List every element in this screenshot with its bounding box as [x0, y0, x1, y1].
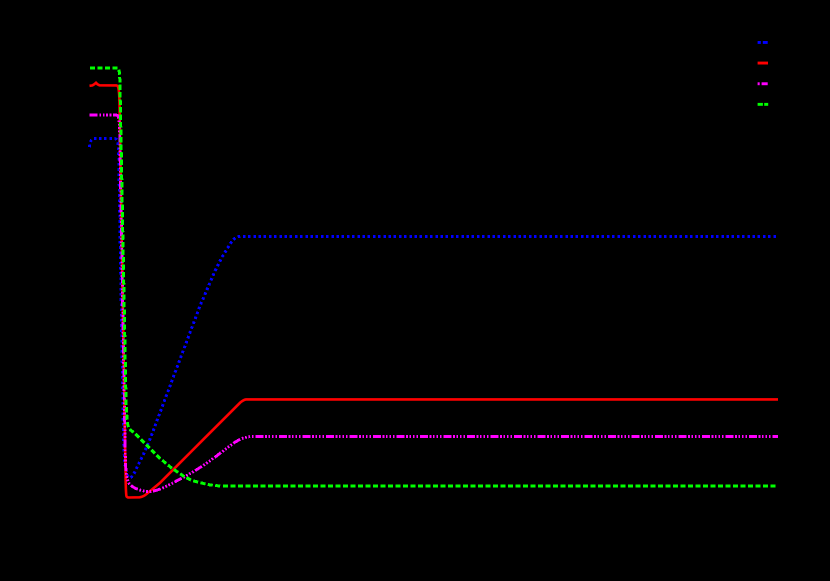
- green dashed curve: [90, 68, 778, 486]
- blue dotted curve: [89, 139, 778, 478]
- legend key red solid: [758, 62, 768, 65]
- legend key green dashed: [758, 103, 769, 106]
- red solid curve: [90, 83, 779, 498]
- legend key blue dotted: [758, 41, 768, 44]
- legend key magenta dash-dot: [758, 82, 768, 85]
- magenta dash-dot curve: [90, 115, 778, 491]
